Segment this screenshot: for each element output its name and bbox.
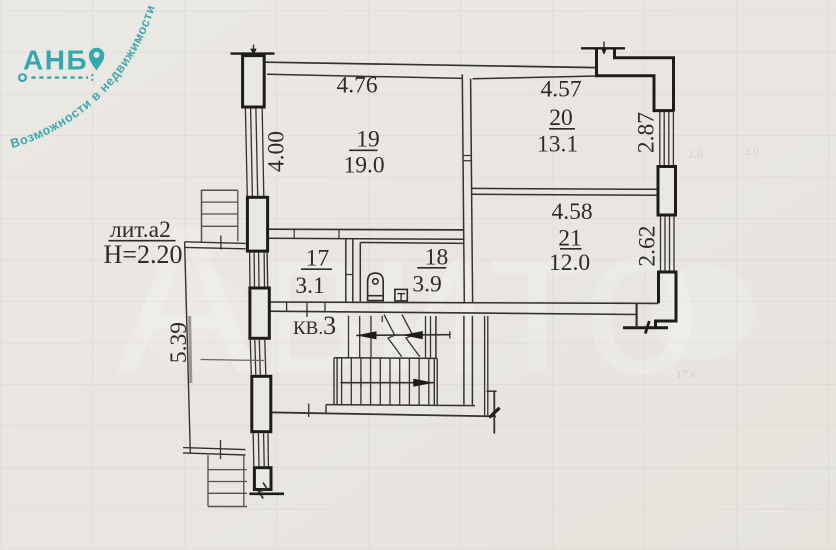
svg-text:4.57: 4.57: [540, 77, 581, 103]
wall between rooms 19 and 20: [462, 74, 472, 302]
svg-text:3.1: 3.1: [295, 273, 324, 299]
svg-text:21: 21: [558, 225, 582, 251]
porch roof line: [201, 360, 265, 361]
wall between rooms 17 and 18: [346, 239, 353, 302]
svg-text:4.00: 4.00: [264, 131, 290, 172]
room 21 bottom wall end connector: [635, 303, 637, 327]
right wall pier 2: [655, 271, 678, 329]
lower stair flight treads: [342, 358, 429, 405]
floor plan: [183, 42, 678, 507]
svg-text:2.0: 2.0: [745, 146, 759, 158]
washbasin in room 18: [395, 289, 407, 301]
porch lower steps: [208, 455, 247, 506]
ground line bottom-right: [623, 326, 668, 329]
svg-text:20: 20: [549, 105, 573, 131]
stair down arrow (right arrowhead): [341, 378, 434, 387]
svg-text:АНБ: АНБ: [23, 45, 88, 76]
svg-text:5.39: 5.39: [166, 322, 192, 363]
vent flag top-right: [601, 42, 607, 55]
svg-text:1.6: 1.6: [688, 147, 703, 161]
stair up arrow (two left arrowheads): [356, 331, 450, 339]
room 21 bottom wall upper line: [267, 302, 659, 303]
left wall pier 4: [254, 468, 271, 490]
svg-text:Н=2.20: Н=2.20: [104, 240, 183, 269]
room 21 bottom wall lower line: [267, 311, 638, 314]
left wall window 4: [253, 433, 268, 466]
svg-text:12.0: 12.0: [549, 250, 590, 276]
stair hall wall B: [485, 316, 488, 416]
lower stair flight box: [334, 358, 437, 405]
svg-text:13.1: 13.1: [537, 132, 578, 158]
svg-text:19.0: 19.0: [343, 152, 384, 178]
svg-text:2.62: 2.62: [635, 225, 661, 266]
left wall window 3: [250, 340, 265, 375]
room 18 enclosure top and left: [360, 243, 464, 303]
upper stair flight treads: [349, 316, 431, 358]
porch top wall: [185, 236, 246, 250]
left wall pier 3: [252, 376, 271, 431]
toilet in room 18: [368, 273, 384, 301]
top wall inner line room 20: [473, 76, 597, 79]
vent line top-right: [581, 47, 625, 49]
underline room 17: [301, 268, 332, 270]
svg-text:19: 19: [356, 127, 380, 153]
stair hall wall A: [464, 316, 473, 405]
svg-text:17: 17: [306, 246, 330, 272]
step wall top-right corner (thick): [597, 48, 674, 110]
svg-text:4.58: 4.58: [551, 199, 592, 225]
stair break zigzag 1: [384, 315, 402, 357]
right wall window 2: [661, 216, 675, 271]
stair hall bottom wall: [267, 404, 497, 417]
svg-text:4.76: 4.76: [336, 72, 377, 98]
vent flag top-left: [250, 45, 256, 59]
ground flag bottom-right: [645, 321, 649, 334]
bottom wall ticks (apartment entry): [268, 302, 325, 317]
wall section tick bottom: [487, 391, 500, 434]
top wall outer line: [266, 62, 597, 67]
stair break zigzag 2: [402, 315, 420, 357]
porch upper steps: [202, 190, 238, 241]
svg-text:18: 18: [425, 244, 449, 270]
wall between rooms 20 and 21: [472, 188, 658, 195]
porch left edge grey bar: [190, 316, 191, 383]
vent line top-left: [231, 52, 275, 54]
underline room 21: [560, 248, 582, 250]
flight divider line: [334, 357, 437, 360]
top wall inner line room 19: [267, 74, 463, 78]
porch left edge: [185, 242, 191, 453]
svg-text:2.87: 2.87: [634, 112, 660, 153]
underline room 20: [549, 128, 575, 130]
porch bottom wall: [183, 440, 246, 459]
ground line bottom-left: [249, 492, 284, 495]
vent shaft box top-left: [243, 56, 265, 107]
upper stair flight right edge: [435, 316, 437, 358]
svg-text:3.9: 3.9: [412, 271, 441, 297]
left wall window 2: [250, 252, 265, 286]
underline room 18: [417, 267, 446, 269]
left wall pier 2: [250, 288, 269, 338]
underline room 19: [349, 149, 377, 151]
wall break mark bottom-left: [259, 483, 267, 499]
left wall pier 1: [247, 197, 267, 251]
underline litera: [108, 240, 175, 242]
right wall pier 1: [658, 167, 676, 216]
room 17 left edge: [267, 239, 268, 302]
watermark: [115, 180, 755, 417]
logo: [8, 3, 158, 151]
left wall window 1: [245, 109, 263, 197]
right wall window 1: [660, 112, 674, 166]
svg-text:17.6: 17.6: [676, 367, 697, 381]
wall between room 19 and rooms 17-18: [267, 229, 464, 239]
